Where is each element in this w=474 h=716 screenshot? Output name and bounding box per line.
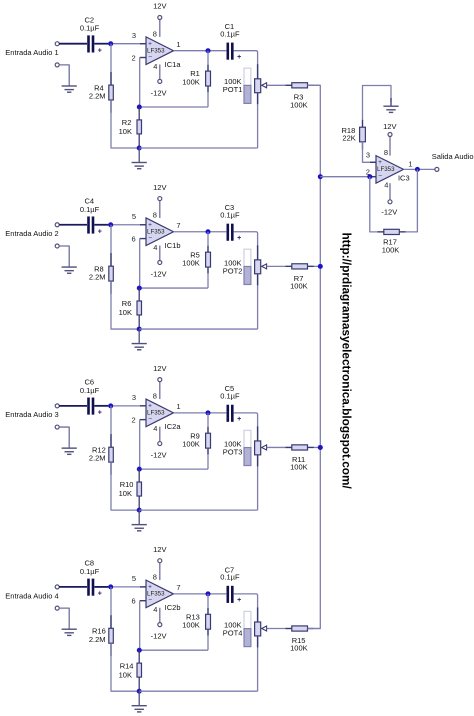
svg-text:-12V: -12V <box>151 89 167 98</box>
svg-text:Entrada Audio 4: Entrada Audio 4 <box>5 591 58 600</box>
svg-text:0.1µF: 0.1µF <box>220 211 240 220</box>
svg-text:5: 5 <box>132 574 136 583</box>
svg-text:LF353: LF353 <box>147 591 165 598</box>
svg-text:0.1µF: 0.1µF <box>220 573 240 582</box>
svg-text:1: 1 <box>176 40 180 49</box>
svg-text:−: − <box>148 416 152 423</box>
svg-text:IC2a: IC2a <box>165 422 182 431</box>
svg-text:22K: 22K <box>342 134 355 143</box>
svg-text:IC3: IC3 <box>398 173 410 182</box>
svg-text:4: 4 <box>153 605 157 614</box>
svg-text:2: 2 <box>366 168 370 177</box>
svg-text:0.1µF: 0.1µF <box>220 30 240 39</box>
svg-text:12V: 12V <box>383 122 396 131</box>
svg-text:−: − <box>378 173 382 180</box>
svg-text:R2: R2 <box>122 118 132 127</box>
svg-text:7: 7 <box>176 221 180 230</box>
svg-text:2: 2 <box>132 416 136 425</box>
svg-text:+: + <box>378 159 382 166</box>
svg-text:2.2M: 2.2M <box>89 454 106 463</box>
svg-text:+: + <box>237 416 241 423</box>
svg-text:−: − <box>148 597 152 604</box>
svg-text:Entrada Audio 2: Entrada Audio 2 <box>5 229 58 238</box>
svg-text:IC2b: IC2b <box>165 603 181 612</box>
svg-text:R10: R10 <box>120 480 134 489</box>
svg-text:IC1a: IC1a <box>165 60 182 69</box>
svg-text:LF353: LF353 <box>147 410 165 417</box>
svg-text:R6: R6 <box>122 299 132 308</box>
svg-text:100K: 100K <box>290 100 308 109</box>
svg-text:−: − <box>148 54 152 61</box>
svg-text:+: + <box>98 47 102 54</box>
svg-text:+: + <box>98 410 102 417</box>
svg-text:Entrada Audio 1: Entrada Audio 1 <box>5 48 58 57</box>
svg-text:-12V: -12V <box>151 451 167 460</box>
svg-text:0.1µF: 0.1µF <box>80 24 100 33</box>
svg-text:-12V: -12V <box>151 270 167 279</box>
svg-text:12V: 12V <box>153 183 166 192</box>
svg-text:6: 6 <box>132 597 136 606</box>
svg-text:2: 2 <box>132 53 136 62</box>
svg-text:+: + <box>148 221 152 228</box>
svg-text:10K: 10K <box>119 127 132 136</box>
svg-text:POT4: POT4 <box>223 628 243 637</box>
svg-text:100K: 100K <box>182 440 200 449</box>
svg-text:POT3: POT3 <box>223 447 243 456</box>
svg-text:100K: 100K <box>182 77 200 86</box>
svg-text:+: + <box>237 597 241 604</box>
svg-text:−: − <box>148 235 152 242</box>
svg-text:12V: 12V <box>153 2 166 11</box>
svg-text:0.1µF: 0.1µF <box>80 567 100 576</box>
svg-text:POT2: POT2 <box>223 266 243 275</box>
svg-text:4: 4 <box>384 181 388 190</box>
svg-text:4: 4 <box>153 424 157 433</box>
svg-text:3: 3 <box>366 151 370 160</box>
svg-text:R14: R14 <box>120 661 134 670</box>
svg-text:-12V: -12V <box>381 207 397 216</box>
svg-text:0.1µF: 0.1µF <box>80 386 100 395</box>
svg-text:LF353: LF353 <box>377 166 395 173</box>
svg-text:8: 8 <box>153 211 157 220</box>
svg-text:4: 4 <box>153 243 157 252</box>
svg-text:1: 1 <box>176 402 180 411</box>
svg-text:10K: 10K <box>119 670 132 679</box>
svg-text:2.2M: 2.2M <box>89 635 106 644</box>
svg-text:12V: 12V <box>153 545 166 554</box>
svg-text:5: 5 <box>132 212 136 221</box>
svg-text:3: 3 <box>132 393 136 402</box>
svg-text:2.2M: 2.2M <box>89 92 106 101</box>
svg-text:+: + <box>148 584 152 591</box>
svg-text:100K: 100K <box>182 258 200 267</box>
svg-text:LF353: LF353 <box>147 48 165 55</box>
svg-text:100K: 100K <box>290 281 308 290</box>
svg-text:+: + <box>148 403 152 410</box>
svg-text:8: 8 <box>153 573 157 582</box>
svg-text:6: 6 <box>132 234 136 243</box>
svg-text:-12V: -12V <box>151 632 167 641</box>
svg-text:8: 8 <box>384 148 388 157</box>
svg-text:+: + <box>98 228 102 235</box>
svg-text:+: + <box>148 40 152 47</box>
svg-text:0.1µF: 0.1µF <box>80 205 100 214</box>
svg-text:10K: 10K <box>119 308 132 317</box>
svg-text:100K: 100K <box>290 463 308 472</box>
svg-text:7: 7 <box>176 583 180 592</box>
svg-text:Entrada Audio 3: Entrada Audio 3 <box>5 410 58 419</box>
svg-text:10K: 10K <box>119 489 132 498</box>
svg-text:8: 8 <box>153 30 157 39</box>
svg-text:3: 3 <box>132 31 136 40</box>
svg-text:12V: 12V <box>153 364 166 373</box>
svg-text:+: + <box>98 591 102 598</box>
svg-text:1: 1 <box>408 159 412 168</box>
svg-text:100K: 100K <box>290 644 308 653</box>
svg-text:+: + <box>237 54 241 61</box>
svg-text:100K: 100K <box>382 246 400 255</box>
svg-text:http://prdiagramasyelectronica: http://prdiagramasyelectronica.blogspot.… <box>339 232 353 489</box>
svg-text:0.1µF: 0.1µF <box>220 392 240 401</box>
svg-text:4: 4 <box>153 62 157 71</box>
svg-text:+: + <box>237 235 241 242</box>
svg-text:2.2M: 2.2M <box>89 273 106 282</box>
svg-text:IC1b: IC1b <box>165 241 181 250</box>
svg-text:Salida Audio: Salida Audio <box>432 152 474 161</box>
svg-text:8: 8 <box>153 392 157 401</box>
svg-text:LF353: LF353 <box>147 229 165 236</box>
svg-text:POT1: POT1 <box>223 85 243 94</box>
svg-text:100K: 100K <box>182 621 200 630</box>
